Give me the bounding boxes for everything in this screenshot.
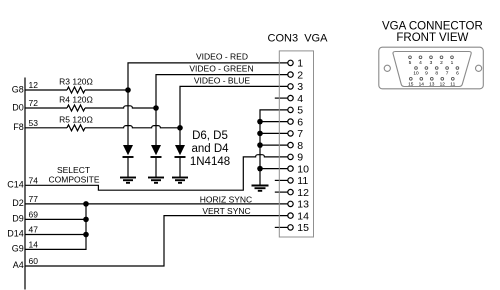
wire pin 12 stub	[275, 191, 288, 193]
svg-text:53: 53	[29, 118, 39, 128]
connector pin circles 1-15	[288, 60, 293, 230]
svg-text:6: 6	[297, 116, 303, 128]
svg-text:VGA CONNECTOR: VGA CONNECTOR	[382, 21, 483, 33]
svg-text:D0: D0	[12, 102, 24, 112]
diode D6	[123, 145, 134, 178]
junction node pin10	[257, 166, 263, 172]
resistor R5	[67, 125, 85, 131]
svg-text:D14: D14	[7, 229, 24, 239]
wire D9 row	[25, 218, 86, 220]
mounting hole left	[384, 65, 390, 71]
wire pin 7 stub	[260, 132, 288, 134]
svg-text:VERT SYNC: VERT SYNC	[202, 206, 250, 216]
VGA front pins row 3 (15 14 13 12 11)	[409, 77, 454, 80]
svg-text:D9: D9	[12, 214, 24, 224]
svg-text:1N4148: 1N4148	[190, 156, 230, 168]
VGA D-shell trapezoid	[393, 52, 471, 87]
svg-text:COMPOSITE: COMPOSITE	[48, 174, 99, 184]
svg-text:G8: G8	[12, 84, 24, 94]
svg-text:F8: F8	[13, 122, 24, 132]
svg-text:13: 13	[297, 199, 309, 211]
svg-text:12: 12	[297, 187, 309, 199]
svg-text:9: 9	[297, 152, 303, 164]
junction node pin8	[257, 142, 263, 148]
svg-text:7: 7	[297, 128, 303, 140]
VGA front pins row 2 (10 9 8 7 6)	[415, 67, 459, 70]
svg-text:15: 15	[408, 81, 414, 87]
junction node on D0/green	[153, 105, 159, 111]
svg-text:R4 120Ω: R4 120Ω	[59, 95, 93, 105]
wire pin 8 stub	[260, 144, 288, 146]
svg-text:2: 2	[297, 69, 303, 81]
mounting hole right	[476, 65, 482, 71]
junction node D9	[83, 217, 89, 223]
svg-text:SELECT: SELECT	[57, 165, 90, 175]
wire pin 15 stub	[275, 226, 288, 228]
svg-text:C14: C14	[7, 180, 24, 190]
wire video green riser and to pin 2	[156, 75, 288, 145]
connector pin numbers	[297, 58, 309, 235]
svg-text:4: 4	[419, 60, 422, 66]
svg-text:14: 14	[29, 239, 39, 249]
svg-text:CON3 VGA: CON3 VGA	[268, 32, 329, 44]
wire pin 6 stub	[260, 121, 288, 123]
wire A4 row riser and vert sync to pin 14	[25, 216, 288, 266]
svg-text:5: 5	[297, 105, 303, 117]
VGA front view shell outline	[379, 47, 484, 89]
wire G8 row left segment	[25, 89, 67, 91]
svg-text:4: 4	[297, 93, 303, 105]
wire R4 to node with crossover hop at x=128	[85, 106, 156, 108]
left bus vertical wire	[24, 78, 26, 290]
wire video blue riser and to pin 3	[180, 86, 288, 145]
svg-text:3: 3	[297, 81, 303, 93]
svg-text:11: 11	[450, 81, 455, 87]
svg-text:9: 9	[425, 71, 428, 77]
svg-text:12: 12	[440, 81, 446, 87]
wire pin 10 stub	[260, 168, 288, 170]
ground under D4	[172, 178, 188, 183]
wire F8 row left segment	[25, 127, 67, 129]
svg-text:R5 120Ω: R5 120Ω	[59, 115, 93, 125]
svg-text:D6, D5: D6, D5	[192, 130, 228, 142]
svg-text:10: 10	[413, 71, 419, 77]
svg-text:14: 14	[297, 210, 309, 222]
wire select composite from C14 to pin 9 with hop at x=260	[25, 155, 288, 191]
svg-text:D2: D2	[12, 198, 24, 208]
left pin numbers	[29, 80, 39, 266]
svg-text:12: 12	[29, 80, 39, 90]
svg-text:G9: G9	[12, 244, 24, 254]
svg-text:7: 7	[446, 71, 449, 77]
svg-text:VIDEO - BLUE: VIDEO - BLUE	[194, 75, 251, 85]
svg-text:1: 1	[297, 58, 303, 70]
svg-text:74: 74	[29, 175, 39, 185]
svg-text:8: 8	[297, 140, 303, 152]
ground under D6	[120, 178, 136, 183]
label diodes D6 D5 D4	[190, 130, 230, 168]
svg-text:VIDEO - RED: VIDEO - RED	[196, 52, 248, 62]
wire pin 11 stub	[275, 179, 288, 181]
junction node on G8/red	[125, 87, 131, 93]
svg-text:69: 69	[29, 209, 39, 219]
svg-text:HORIZ SYNC: HORIZ SYNC	[200, 194, 252, 204]
resistor R4	[67, 105, 85, 111]
svg-text:10: 10	[297, 163, 309, 175]
svg-text:14: 14	[419, 81, 425, 87]
junction node pin6	[257, 119, 263, 125]
wire R3 to node	[85, 89, 128, 91]
svg-text:3: 3	[430, 60, 433, 66]
label VGA connector front view	[382, 21, 483, 45]
svg-text:FRONT VIEW: FRONT VIEW	[396, 32, 468, 44]
wire D2 row / horiz sync to pin 13	[25, 203, 288, 205]
junction node D14	[83, 232, 89, 238]
connector CON3 box	[279, 51, 313, 237]
svg-text:5: 5	[409, 60, 412, 66]
left pin name labels	[7, 84, 24, 270]
net label select composite	[48, 165, 99, 185]
svg-text:60: 60	[29, 256, 39, 266]
diode D4	[175, 145, 186, 178]
wire pin 4 stub	[275, 97, 288, 99]
svg-text:1: 1	[451, 60, 454, 66]
ground under pin bus	[252, 186, 269, 191]
ground under D5	[148, 178, 164, 183]
junction node D2	[83, 201, 89, 207]
svg-text:2: 2	[440, 60, 443, 66]
wire pin 5 to gnd bus	[260, 110, 288, 186]
svg-text:A4: A4	[13, 260, 24, 270]
diode D5	[151, 145, 162, 178]
junction node pin7	[257, 131, 263, 137]
svg-text:6: 6	[456, 71, 459, 77]
svg-text:47: 47	[29, 225, 39, 235]
svg-text:VIDEO - GREEN: VIDEO - GREEN	[189, 64, 253, 74]
svg-text:13: 13	[429, 81, 435, 87]
wire D0 row left segment	[25, 107, 67, 109]
VGA front pins row 1 (5 4 3 2 1)	[409, 56, 454, 59]
svg-text:72: 72	[29, 98, 39, 108]
wire D14 row	[25, 234, 86, 236]
resistor R3	[67, 87, 85, 93]
svg-text:15: 15	[297, 222, 309, 234]
svg-text:8: 8	[435, 71, 438, 77]
svg-text:R3 120Ω: R3 120Ω	[59, 77, 93, 87]
svg-text:and D4: and D4	[191, 143, 229, 155]
wire video red riser and to pin 1	[128, 63, 288, 145]
svg-text:77: 77	[29, 194, 39, 204]
wire R5 to node with crossover hops at x=128 and x=156	[85, 126, 180, 128]
wire G9 row with riser to D2	[25, 204, 86, 250]
junction node on F8/blue	[177, 125, 183, 131]
svg-text:11: 11	[297, 175, 308, 187]
